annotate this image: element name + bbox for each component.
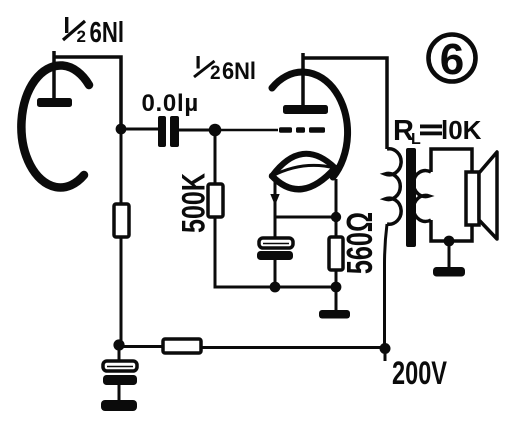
junction dot cathode right — [331, 212, 341, 222]
svg-text:6Nl: 6Nl — [90, 17, 125, 49]
tube V1 envelope — [21, 65, 89, 187]
wire V2 plate to transformer primary — [303, 58, 387, 149]
svg-text:500K: 500K — [175, 173, 211, 233]
bypass capacitor C2 bottom plate — [257, 251, 293, 260]
svg-text:2: 2 — [210, 63, 221, 84]
B+ rail wire right — [201, 346, 386, 349]
junction dot 560Ω/bus — [331, 282, 342, 293]
svg-text:L: L — [411, 131, 421, 148]
node B junction dot — [113, 339, 124, 350]
200V node junction dot — [380, 343, 391, 354]
cathode right lead — [335, 179, 338, 237]
junction dot C2/bus — [270, 282, 281, 293]
svg-text:6Nl: 6Nl — [222, 58, 256, 85]
ground stem (C3) — [118, 385, 121, 401]
cathode parallel wire — [275, 216, 336, 219]
wire primary to 200V node — [385, 224, 388, 348]
ground (cathode) — [319, 310, 350, 319]
wire C2 to ground bus — [274, 260, 277, 287]
wire C1 to node C — [179, 129, 215, 132]
grid dashes V2 — [279, 127, 325, 133]
200V node stub — [384, 348, 387, 361]
speaker driver — [466, 172, 479, 225]
transformer T1 primary winding — [385, 149, 401, 224]
speaker frame with T1 secondary winding — [414, 149, 472, 241]
junction dot speaker ground — [444, 236, 455, 247]
node A junction dot — [116, 124, 127, 135]
wire R1 to node B — [120, 237, 123, 345]
ground (C3) — [101, 400, 137, 411]
label RL=10K — [393, 115, 482, 148]
tube V1 plate bar — [37, 98, 72, 107]
wire node A to capacitor C1 — [121, 128, 158, 131]
wire node C down to resistor 500K — [214, 130, 217, 184]
wire 560Ω to ground node — [335, 270, 338, 287]
transformer T1 core — [406, 148, 416, 247]
tube V2 plate lead — [301, 53, 305, 105]
svg-text:l0K: l0K — [441, 115, 482, 145]
wire node A down to resistor R1 — [120, 129, 123, 204]
resistor 500K — [208, 184, 223, 217]
tube V2 cathode loop — [272, 154, 335, 189]
svg-text:2: 2 — [77, 27, 86, 46]
electrolytic capacitor C3 top plate — [103, 361, 137, 371]
svg-text:6: 6 — [440, 35, 464, 84]
grid wire V2 — [215, 129, 278, 132]
resistor R2 (B+ rail) — [163, 339, 201, 353]
ground stem (speaker) — [448, 241, 451, 268]
svg-text:0.0lµ: 0.0lµ — [142, 90, 199, 117]
bypass capacitor C2 top plate — [259, 238, 293, 248]
speaker cone — [479, 152, 497, 239]
ground (speaker) — [433, 267, 465, 277]
tube V1 plate lead — [52, 51, 56, 98]
label ½6N1 (V1) — [63, 17, 124, 49]
tube V2 plate bar — [283, 105, 328, 114]
ground stem (cathode) — [335, 287, 338, 312]
wire 500K to ground bus — [215, 217, 336, 287]
svg-text:560Ω: 560Ω — [340, 212, 381, 274]
resistor 560Ω — [329, 237, 343, 270]
wire node B to capacitor C3 — [118, 345, 121, 362]
label ½6N1 (V2) — [194, 56, 256, 85]
cathode left lead — [274, 182, 277, 238]
capacitor C1 plates — [158, 116, 179, 147]
wire plate V1 to node A — [54, 57, 121, 129]
node C junction dot — [209, 124, 222, 137]
arrow on cathode left lead — [270, 194, 279, 206]
resistor R1 — [114, 204, 129, 237]
electrolytic capacitor C3 bottom plate — [103, 375, 137, 385]
tube V2 envelope — [272, 72, 348, 177]
B+ rail wire left — [119, 345, 163, 348]
svg-text:200V: 200V — [392, 355, 447, 391]
figure number 6 circle — [429, 35, 476, 82]
